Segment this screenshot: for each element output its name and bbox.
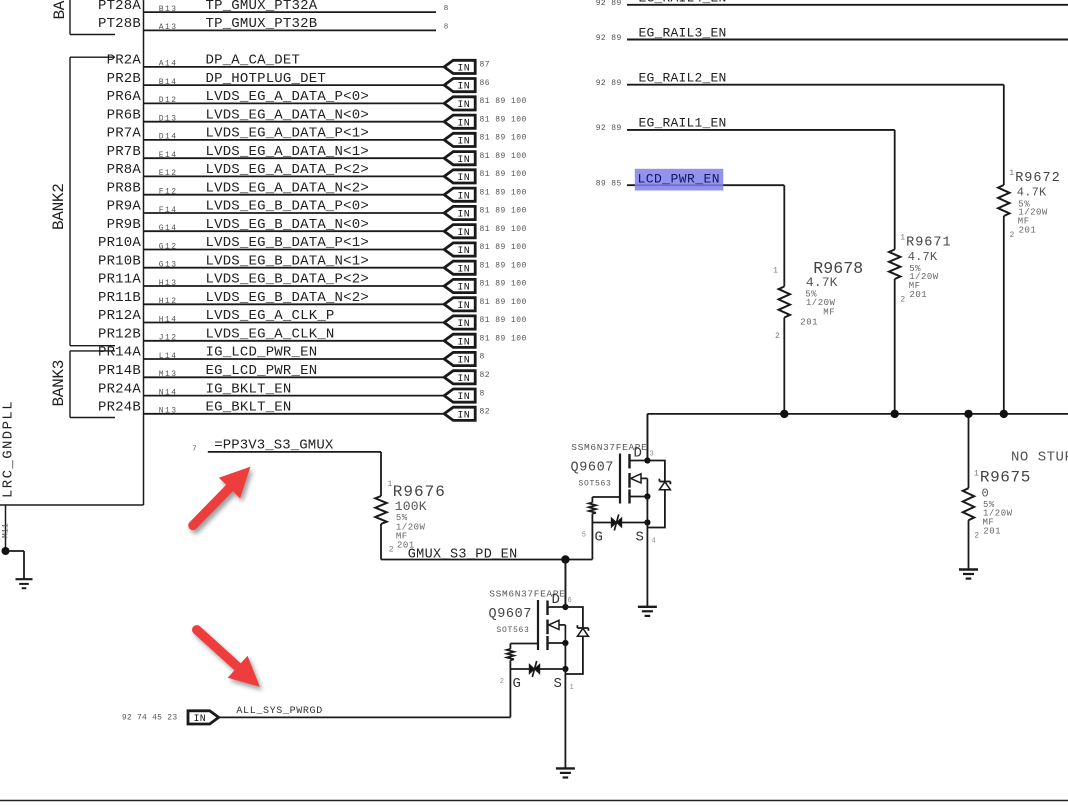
svg-text:92 89: 92 89	[596, 34, 622, 43]
svg-text:IN: IN	[457, 118, 470, 129]
svg-text:PT28A: PT28A	[98, 0, 141, 14]
svg-text:81 89 100: 81 89 100	[480, 97, 527, 106]
svg-text:G: G	[513, 676, 521, 692]
svg-text:PR8B: PR8B	[107, 180, 141, 196]
svg-text:ALL_SYS_PWRGD: ALL_SYS_PWRGD	[236, 706, 322, 717]
svg-text:4.7K: 4.7K	[908, 250, 938, 264]
svg-text:S: S	[554, 676, 562, 692]
svg-text:Q9607: Q9607	[571, 461, 615, 476]
svg-text:89 85: 89 85	[596, 180, 622, 189]
svg-text:IN: IN	[457, 82, 470, 93]
svg-text:IN: IN	[457, 191, 470, 202]
svg-text:EG_RAIL2_EN: EG_RAIL2_EN	[639, 71, 727, 86]
svg-text:PR2B: PR2B	[107, 71, 141, 87]
svg-text:IN: IN	[457, 210, 470, 221]
svg-text:2: 2	[900, 296, 905, 305]
svg-text:PR7A: PR7A	[107, 126, 142, 142]
svg-text:R9675: R9675	[980, 469, 1031, 487]
svg-text:IN: IN	[457, 392, 470, 403]
svg-text:92 89: 92 89	[596, 79, 622, 88]
svg-text:1: 1	[900, 234, 905, 243]
svg-text:87: 87	[480, 61, 491, 70]
svg-text:2: 2	[974, 532, 979, 541]
svg-text:IN: IN	[457, 100, 470, 111]
svg-text:IN: IN	[457, 410, 470, 421]
svg-text:IN: IN	[457, 301, 470, 312]
svg-text:SOT563: SOT563	[579, 480, 612, 489]
svg-text:IN: IN	[457, 356, 470, 367]
svg-text:D: D	[552, 592, 560, 608]
svg-text:0: 0	[982, 486, 989, 500]
svg-text:PR8A: PR8A	[107, 162, 142, 178]
svg-text:81 89 100: 81 89 100	[480, 152, 527, 161]
svg-text:8: 8	[444, 5, 449, 13]
svg-text:1: 1	[773, 266, 778, 275]
svg-text:8: 8	[480, 353, 485, 362]
svg-text:81 89 100: 81 89 100	[480, 134, 527, 143]
svg-text:8: 8	[480, 389, 485, 398]
svg-text:IN: IN	[457, 173, 470, 184]
svg-text:S: S	[636, 530, 644, 546]
svg-text:NO STUFF: NO STUFF	[1011, 450, 1068, 466]
svg-text:4.7K: 4.7K	[1017, 186, 1047, 200]
svg-text:D: D	[634, 446, 642, 462]
svg-text:82: 82	[480, 408, 491, 417]
svg-text:2: 2	[389, 546, 394, 555]
svg-text:4.7K: 4.7K	[806, 275, 838, 290]
svg-text:PR9A: PR9A	[107, 199, 142, 215]
svg-text:92 89: 92 89	[596, 0, 622, 8]
svg-text:LCD_PWR_EN: LCD_PWR_EN	[638, 171, 721, 186]
svg-text:5%: 5%	[396, 513, 408, 523]
svg-text:BANK3: BANK3	[50, 360, 68, 407]
svg-text:BANK1: BANK1	[51, 0, 69, 20]
svg-text:PR2A: PR2A	[107, 53, 142, 69]
svg-text:IN: IN	[457, 228, 470, 239]
svg-text:81 89 100: 81 89 100	[480, 170, 527, 179]
svg-text:PR12B: PR12B	[98, 327, 141, 343]
svg-text:92 74 45 23: 92 74 45 23	[122, 714, 178, 723]
svg-text:92 89: 92 89	[596, 124, 622, 133]
svg-text:201: 201	[1019, 226, 1037, 236]
svg-text:R9672: R9672	[1015, 171, 1061, 186]
svg-text:PR11B: PR11B	[98, 290, 141, 306]
svg-text:PR24B: PR24B	[98, 400, 141, 416]
svg-text:G: G	[595, 530, 603, 546]
svg-text:2: 2	[1010, 231, 1015, 240]
svg-text:IN: IN	[193, 714, 206, 725]
svg-text:M11: M11	[2, 523, 11, 538]
svg-text:PR10A: PR10A	[98, 235, 141, 251]
svg-text:IN: IN	[457, 337, 470, 348]
svg-text:IN: IN	[457, 64, 470, 75]
svg-text:2: 2	[500, 678, 504, 686]
svg-text:PR6A: PR6A	[107, 89, 142, 105]
svg-text:81 89 100: 81 89 100	[480, 225, 527, 234]
svg-text:PT28B: PT28B	[98, 16, 141, 32]
svg-text:PR6B: PR6B	[107, 107, 141, 123]
svg-text:81 89 100: 81 89 100	[480, 243, 527, 252]
svg-text:IN: IN	[457, 264, 470, 275]
svg-text:SOT563: SOT563	[497, 626, 530, 635]
svg-text:2: 2	[775, 332, 780, 341]
svg-text:IN: IN	[457, 283, 470, 294]
svg-text:IN: IN	[457, 246, 470, 257]
svg-text:BANK2: BANK2	[50, 183, 68, 230]
svg-text:100K: 100K	[395, 499, 427, 514]
svg-text:8: 8	[444, 23, 449, 31]
svg-text:6: 6	[568, 597, 572, 605]
svg-text:1: 1	[1009, 169, 1014, 178]
svg-text:Q9607: Q9607	[489, 607, 533, 622]
svg-text:81 89 100: 81 89 100	[480, 316, 527, 325]
svg-text:PR14B: PR14B	[98, 363, 141, 379]
svg-text:EG_RAIL4_EN: EG_RAIL4_EN	[639, 0, 727, 6]
svg-text:3: 3	[650, 451, 654, 459]
svg-text:PR24A: PR24A	[98, 381, 141, 397]
svg-text:81 89 100: 81 89 100	[480, 298, 527, 307]
svg-text:PR9B: PR9B	[107, 217, 141, 233]
svg-text:EG_RAIL1_EN: EG_RAIL1_EN	[639, 116, 727, 131]
svg-text:81 89 100: 81 89 100	[480, 115, 527, 124]
svg-text:201: 201	[800, 317, 818, 327]
svg-text:81 89 100: 81 89 100	[480, 261, 527, 270]
svg-text:MF: MF	[823, 308, 835, 318]
svg-text:IN: IN	[457, 319, 470, 330]
svg-text:PR12A: PR12A	[98, 308, 141, 324]
svg-text:IN: IN	[457, 374, 470, 385]
svg-text:1: 1	[570, 684, 574, 692]
svg-text:1: 1	[974, 470, 979, 479]
svg-text:R9671: R9671	[906, 236, 952, 251]
svg-text:7: 7	[192, 446, 197, 454]
svg-text:PR10B: PR10B	[98, 253, 141, 269]
svg-text:201: 201	[910, 290, 928, 300]
svg-text:5: 5	[582, 532, 586, 540]
svg-text:1: 1	[388, 480, 393, 489]
svg-text:IN: IN	[457, 155, 470, 166]
svg-text:82: 82	[480, 371, 491, 380]
svg-text:PR14A: PR14A	[98, 345, 141, 361]
svg-text:LRC_GNDPLL: LRC_GNDPLL	[1, 400, 17, 498]
svg-text:81 89 100: 81 89 100	[480, 335, 527, 344]
svg-text:PR11A: PR11A	[98, 272, 141, 288]
svg-text:86: 86	[480, 79, 491, 88]
svg-text:81 89 100: 81 89 100	[480, 207, 527, 216]
svg-text:IN: IN	[457, 137, 470, 148]
svg-text:201: 201	[983, 526, 1001, 536]
svg-text:81 89 100: 81 89 100	[480, 188, 527, 197]
svg-text:81 89 100: 81 89 100	[480, 280, 527, 289]
svg-text:EG_RAIL3_EN: EG_RAIL3_EN	[639, 25, 727, 40]
svg-text:PR7B: PR7B	[107, 144, 141, 160]
svg-text:4: 4	[652, 538, 656, 546]
